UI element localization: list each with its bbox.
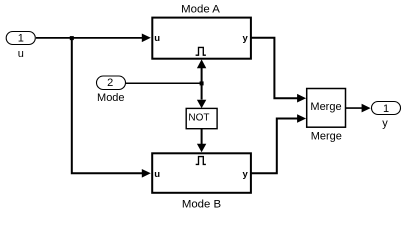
svg-text:u: u	[154, 33, 160, 44]
node junction on Mode wire	[200, 81, 204, 85]
wire NOT to Mode B enable	[197, 129, 206, 152]
wire junction up to Mode A enable	[197, 59, 206, 83]
svg-text:y: y	[382, 118, 388, 130]
svg-text:2: 2	[107, 77, 113, 89]
wire In1 to Mode A input u	[36, 34, 151, 43]
svg-text:1: 1	[383, 103, 389, 115]
subsystem Mode B	[152, 153, 251, 193]
svg-text:u: u	[18, 48, 24, 60]
svg-text:u: u	[154, 169, 160, 180]
wire junction down to NOT	[197, 83, 206, 108]
inport In1 oval	[6, 32, 35, 45]
svg-text:y: y	[243, 169, 249, 180]
svg-text:Merge: Merge	[310, 101, 341, 113]
wire Mode A y to Merge input 1	[251, 38, 307, 103]
svg-text:Mode: Mode	[97, 92, 125, 104]
svg-text:NOT: NOT	[188, 113, 209, 124]
inport In2 oval	[97, 76, 126, 90]
svg-text:Mode B: Mode B	[182, 198, 221, 210]
node junction on u wire	[70, 36, 74, 40]
wire Mode B y to Merge input 2	[251, 114, 307, 173]
block Merge	[307, 89, 346, 128]
wire In2 to junction	[126, 82, 202, 84]
svg-text:y: y	[243, 33, 249, 44]
logic block NOT	[186, 108, 217, 128]
svg-text:Mode A: Mode A	[181, 3, 220, 15]
enable pulse icon (Mode A)	[196, 47, 206, 55]
enable pulse icon (Mode B)	[196, 157, 206, 165]
wire branch to Mode B input u	[72, 38, 151, 178]
outport Out1 oval	[372, 102, 401, 116]
wire Merge to Out1	[346, 104, 371, 113]
svg-text:Merge: Merge	[311, 131, 342, 143]
subsystem Mode A	[152, 18, 251, 59]
svg-text:1: 1	[18, 33, 24, 45]
